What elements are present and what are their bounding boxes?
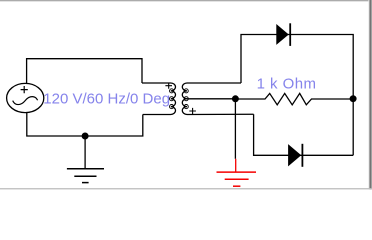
secondary polarity + — [189, 108, 196, 114]
resistor R1 1 k Ohm — [235, 93, 353, 104]
diode D1 — [277, 23, 291, 46]
frame right shadow — [368, 0, 372, 190]
svg-text:1 k Ohm: 1 k Ohm — [257, 76, 317, 93]
node junction dot right — [350, 95, 357, 102]
wire bottom rail — [254, 114, 354, 155]
transformer T1 secondary winding — [182, 83, 253, 114]
diode D2 — [289, 144, 303, 167]
node junction dot left ground — [82, 133, 89, 140]
transformer T1 primary winding — [142, 83, 176, 115]
wire junction to ground (black part) — [234, 99, 236, 159]
wire top-left rail — [27, 59, 142, 84]
primary polarity + — [165, 83, 172, 89]
wire bottom-left rail — [27, 113, 143, 136]
frame top shadow — [0, 0, 372, 2]
wire secondary top to top rail — [241, 35, 353, 156]
svg-text:120 V/60 Hz/0 Deg: 120 V/60 Hz/0 Deg — [43, 91, 170, 108]
node junction dot secondary center tap — [232, 95, 239, 102]
AC source V1 — [7, 83, 44, 112]
ground GND1 (black) — [67, 136, 104, 183]
frame bottom line — [0, 188, 372, 189]
ground GND2 (red) — [217, 159, 257, 186]
